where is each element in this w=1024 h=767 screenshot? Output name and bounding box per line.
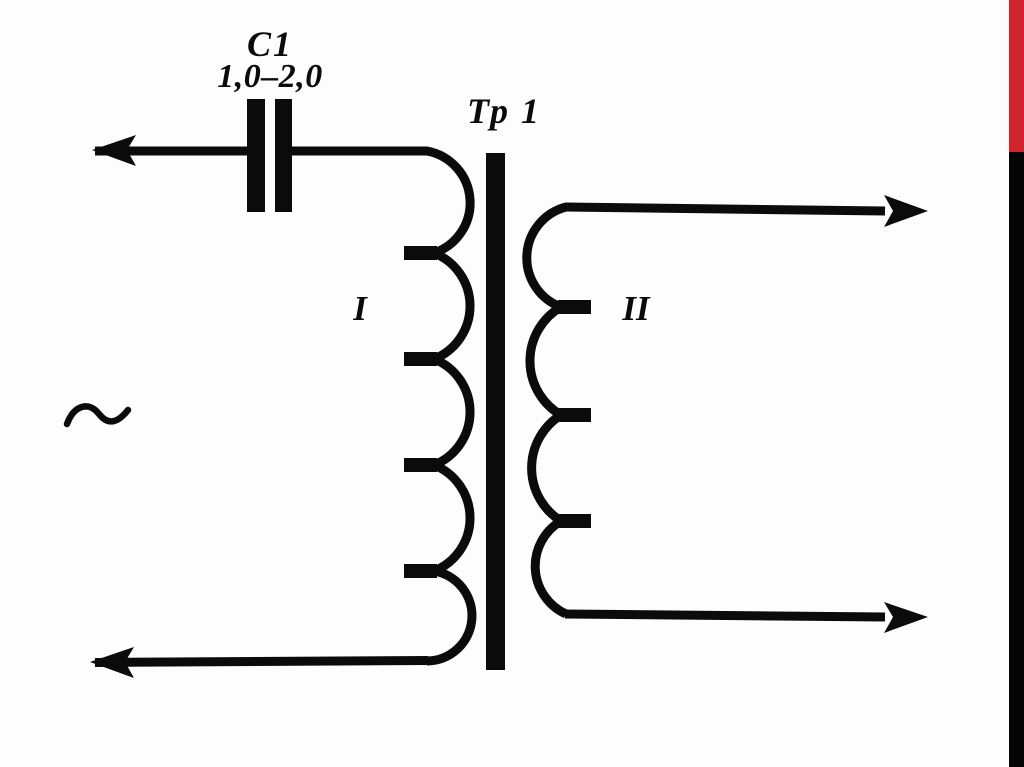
wire bottom-left from primary winding to arrow [95, 661, 428, 663]
black bottom segment of right sidebar [1009, 152, 1024, 767]
capacitor C1 left plate [247, 99, 265, 212]
primary winding I of transformer Tp1 [427, 151, 472, 661]
AC source tilde symbol [67, 406, 128, 424]
svg-text:II: II [621, 289, 651, 328]
capacitor C1 right plate [275, 99, 292, 212]
primary winding cusp tick 2 [404, 352, 437, 366]
arrowhead right output (top) [884, 195, 928, 227]
arrowhead right output (bottom) [884, 602, 928, 633]
secondary winding cusp tick 1 [558, 300, 591, 314]
arrowhead left output (top) [92, 135, 136, 166]
wire bottom-right from secondary winding to arrow [565, 614, 885, 617]
wire top-left from arrow to capacitor C1 [95, 147, 248, 156]
primary winding cusp tick 1 [404, 246, 437, 260]
svg-text:1,0–2,0: 1,0–2,0 [217, 58, 323, 95]
secondary winding cusp tick 3 [558, 514, 591, 528]
svg-text:I: I [352, 289, 368, 328]
svg-text:Тр 1: Тр 1 [467, 91, 541, 131]
wire from capacitor C1 to primary winding [291, 147, 428, 156]
primary winding cusp tick 3 [404, 458, 437, 472]
arrowhead left output (bottom) [90, 647, 134, 678]
secondary winding cusp tick 2 [558, 408, 591, 422]
transformer Tp1 core [486, 153, 505, 670]
secondary winding II of transformer Tp1 [527, 207, 566, 614]
primary winding cusp tick 4 [404, 564, 437, 578]
red top segment of right sidebar [1009, 0, 1024, 152]
wire top-right from secondary winding to arrow [565, 207, 885, 211]
